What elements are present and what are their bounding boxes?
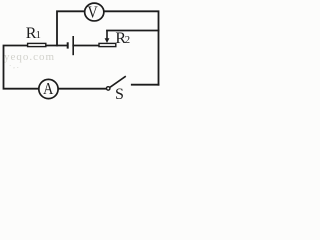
watermark: [4, 51, 55, 70]
wire ammeter to switch: [59, 88, 106, 90]
ammeter A: [39, 79, 58, 99]
wire battery to R2: [73, 45, 98, 47]
wire left side: main row left + left vertical + bottom left: [4, 46, 38, 89]
svg-text:V: V: [88, 3, 98, 22]
wire top-right from voltmeter to right side: [104, 11, 158, 84]
svg-text:2: 2: [125, 34, 131, 46]
battery (cell): [68, 36, 74, 55]
wire switch right to bottom-right corner: [132, 84, 159, 86]
svg-text:1: 1: [36, 30, 41, 41]
rheostat R2: [99, 30, 130, 47]
wire rheostat wiper to right vertical: [107, 30, 159, 32]
switch S: [106, 76, 125, 103]
voltmeter V: [85, 3, 104, 22]
svg-text:A: A: [43, 79, 54, 98]
resistor R1: [26, 25, 46, 46]
wire top-left vertical (voltmeter left lead): [57, 11, 84, 45]
svg-text:S: S: [115, 86, 124, 101]
wire R1 to battery: [46, 45, 67, 47]
svg-text:· , ․: · , ․: [9, 62, 19, 70]
